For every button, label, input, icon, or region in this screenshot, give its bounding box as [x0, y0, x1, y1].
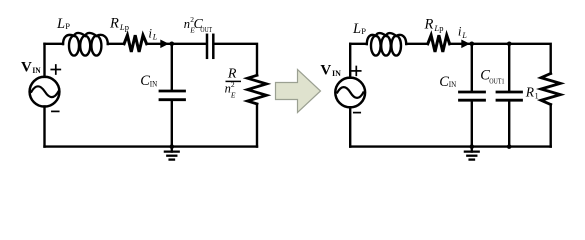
svg-text:R: R — [424, 16, 434, 32]
svg-text:R: R — [525, 85, 535, 100]
label R/nE^2 fraction (left) — [225, 67, 241, 100]
wire: left source bottom to rail — [43, 106, 45, 146]
label iL (right) — [458, 24, 468, 40]
inductor LP (left) — [63, 33, 108, 56]
node: left ground junction dot — [170, 144, 175, 149]
node: left circuit input node junction dot — [170, 42, 175, 47]
svg-text:OUT1: OUT1 — [489, 77, 505, 85]
wire: COUT1 branch top (right) — [508, 44, 510, 91]
wire: R1 bottom to rail (right) — [550, 105, 552, 147]
wire: series capacitor to right corner and down to R/nE^2 (left) — [215, 44, 257, 76]
iL current arrowhead (right) — [461, 40, 470, 49]
capacitor COUT1 plates (right) — [497, 92, 522, 100]
wire: CIN branch top (right) — [471, 44, 473, 91]
svg-text:V: V — [320, 63, 331, 79]
svg-text:IN: IN — [32, 66, 41, 75]
wire: CIN branch top (left) — [171, 44, 173, 90]
label nE^2 COUT (left) — [184, 15, 213, 35]
svg-text:i: i — [458, 24, 462, 39]
label VIN (right) — [320, 63, 341, 79]
node: right ground junction dot — [470, 144, 475, 149]
capacitor nE^2*COUT series plates (left) — [207, 35, 213, 58]
wire: R/nE^2 bottom to rail (left) — [256, 104, 258, 147]
label R1 (right) — [525, 85, 539, 101]
svg-text:L: L — [352, 21, 361, 37]
resistor RLp (left) — [124, 35, 147, 52]
svg-text:P: P — [65, 21, 70, 31]
svg-text:C: C — [439, 74, 449, 90]
inductor LP (right) — [367, 33, 406, 56]
label iL (left) — [148, 25, 157, 41]
source polarity - (left) — [52, 110, 59, 112]
wire: inductor to resistor RLp (right) — [406, 43, 428, 45]
svg-text:L: L — [152, 33, 158, 42]
label LP (right) — [352, 21, 366, 37]
ground (right) — [465, 147, 479, 160]
svg-text:OUT: OUT — [200, 26, 212, 34]
wire: right source bottom to rail — [349, 107, 351, 146]
svg-text:IN: IN — [332, 69, 341, 78]
source VIN circle (right) — [335, 78, 365, 108]
label RLp (right) — [424, 16, 444, 33]
wire: inductor to resistor RLp (left) — [108, 43, 124, 45]
wire: right circuit top rail corner to inductor — [350, 43, 367, 45]
wire: left circuit bottom rail — [45, 145, 258, 147]
node: right circuit COUT1 top junction dot — [507, 42, 512, 47]
resistor RLp (right) — [428, 35, 450, 52]
label RLp (left) — [109, 15, 129, 32]
resistor R1 (right) — [541, 74, 560, 105]
ground (left) — [165, 147, 179, 160]
svg-text:p: p — [439, 23, 443, 33]
wire: CIN bottom to rail (left) — [171, 101, 173, 147]
svg-text:2: 2 — [231, 80, 235, 89]
capacitor CIN plates (right) — [460, 92, 485, 100]
source VIN sine wave (right) — [337, 87, 363, 98]
wire: left circuit source branch top — [43, 44, 45, 77]
svg-text:E: E — [230, 90, 236, 99]
source polarity + (right) — [352, 67, 361, 76]
svg-text:C: C — [140, 73, 150, 89]
wire: resistor to node (left, carries iL arrow) — [147, 43, 206, 45]
label COUT1 (right) — [480, 67, 505, 85]
svg-text:IN: IN — [449, 80, 457, 89]
svg-text:V: V — [21, 59, 32, 75]
svg-text:p: p — [125, 22, 129, 32]
node: right circuit CIN top junction dot — [470, 42, 475, 47]
label CIN (right) — [439, 74, 456, 90]
wire: COUT1 bottom to rail (right) — [508, 102, 510, 147]
wire: resistor to top rail nodes and corner (right) — [450, 44, 551, 74]
svg-text:1: 1 — [535, 92, 539, 101]
source VIN circle (left) — [30, 77, 60, 107]
svg-text:R: R — [109, 15, 119, 31]
svg-text:n: n — [184, 17, 190, 31]
resistor R/nE^2 (left) — [248, 75, 267, 104]
node: right COUT1 bottom junction dot — [507, 144, 512, 149]
svg-text:L: L — [56, 16, 65, 32]
label CIN (left) — [140, 73, 157, 89]
svg-text:IN: IN — [150, 80, 158, 89]
block arrow (transformation) — [276, 70, 321, 113]
label VIN (left) — [21, 59, 41, 75]
iL current arrowhead (left) — [160, 40, 169, 49]
wire: left circuit top rail corner to inductor — [45, 43, 64, 45]
wire: CIN bottom to rail (right) — [471, 102, 473, 147]
wire: right circuit source branch top — [349, 44, 351, 78]
svg-text:P: P — [361, 26, 366, 36]
wire: right circuit bottom rail — [350, 145, 551, 147]
label LP (left) — [56, 16, 70, 32]
source polarity - (right) — [354, 112, 360, 114]
source polarity + (left) — [51, 65, 60, 74]
capacitor CIN plates (left) — [160, 91, 185, 100]
svg-text:L: L — [461, 31, 467, 40]
source VIN sine wave (left) — [31, 86, 58, 97]
